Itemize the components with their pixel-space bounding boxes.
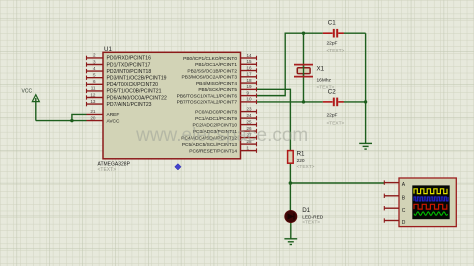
wire node to D1 [289, 183, 291, 211]
svg-text:22pF: 22pF [327, 113, 338, 119]
svg-text:<TEXT>: <TEXT> [297, 164, 315, 170]
pin 17 stub PB3 [182, 72, 257, 81]
pin 9 stub PB6 [177, 90, 257, 99]
svg-text:PB1/OC1A/PCINT1: PB1/OC1A/PCINT1 [195, 62, 237, 68]
power VCC [22, 89, 40, 102]
svg-text:6: 6 [93, 79, 96, 84]
svg-text:2: 2 [93, 53, 96, 58]
svg-text:<TEXT>: <TEXT> [327, 121, 345, 127]
svg-text:AREF: AREF [107, 112, 120, 118]
svg-text:5: 5 [93, 73, 96, 78]
svg-text:<TEXT>: <TEXT> [302, 220, 320, 226]
svg-text:16Mhz: 16Mhz [317, 78, 332, 84]
marker origin diamond [175, 164, 181, 170]
scope input C stub [384, 206, 406, 214]
pin 16 stub PB2 [187, 65, 256, 74]
svg-text:PC1/ADC1/PCINT9: PC1/ADC1/PCINT9 [195, 116, 237, 122]
svg-text:12: 12 [90, 92, 96, 97]
ground rail [359, 143, 372, 149]
scope input B stub [384, 194, 406, 202]
svg-text:PD1/TXD/PCINT17: PD1/TXD/PCINT17 [107, 62, 151, 68]
svg-text:X1: X1 [317, 65, 325, 72]
svg-text:PB7/TOSC2/XTAL2/PCINT7: PB7/TOSC2/XTAL2/PCINT7 [177, 100, 238, 106]
pin 23 stub PC0 [195, 106, 256, 115]
crystal X1 [294, 65, 313, 77]
svg-text:D1: D1 [302, 207, 310, 214]
pin 21 stub AREF [87, 109, 120, 118]
svg-text:11: 11 [91, 86, 96, 91]
pin 28 stub PC5 [182, 139, 257, 148]
pin 11 stub PD5 [87, 86, 162, 95]
pin 26 stub PC3 [193, 126, 257, 135]
svg-text:21: 21 [90, 109, 96, 114]
svg-text:22pF: 22pF [327, 41, 338, 47]
pin 12 stub PD6 [87, 92, 167, 101]
wire AVCC net VCC to pin 20 [36, 120, 87, 122]
svg-text:10: 10 [247, 97, 253, 102]
svg-text:19: 19 [247, 84, 253, 89]
svg-text:14: 14 [247, 53, 253, 58]
svg-text:PB6/TOSC1/XTAL1/PCINT6: PB6/TOSC1/XTAL1/PCINT6 [177, 93, 238, 99]
scope trace B blue [414, 197, 448, 201]
capacitor C2 [323, 98, 344, 107]
svg-text:24: 24 [247, 113, 253, 118]
pin 24 stub PC1 [195, 113, 256, 122]
svg-text:<TEXT>: <TEXT> [98, 167, 117, 173]
wire AREF branch [72, 114, 87, 120]
svg-text:1: 1 [247, 145, 250, 150]
wire R1 to node [289, 163, 291, 183]
svg-text:PC0/ADC0/PCINT8: PC0/ADC0/PCINT8 [195, 109, 237, 115]
resistor R1 [288, 151, 294, 164]
svg-text:PC6/RESET/PCINT14: PC6/RESET/PCINT14 [189, 148, 237, 154]
svg-text:C1: C1 [328, 19, 336, 26]
wire VCC lead down [35, 98, 37, 121]
svg-text:15: 15 [247, 59, 253, 64]
pin 2 stub PD0 [87, 53, 152, 62]
scope trace A yellow [414, 189, 447, 194]
wire pin19 SCK to R1 [257, 89, 291, 150]
wire crystal leads [303, 33, 305, 102]
svg-text:VCC: VCC [22, 89, 33, 95]
pin 13 stub PD7 [87, 99, 152, 108]
pin 5 stub PD3 [87, 73, 167, 82]
scope trace C red [414, 204, 447, 209]
svg-text:ce.com: ce.com [247, 125, 308, 146]
svg-text:U1: U1 [104, 46, 112, 53]
pin 4 stub PD2 [87, 66, 152, 75]
pin 14 stub PB0 [183, 53, 256, 62]
wire D1 to ground [290, 223, 292, 239]
svg-text:PD5/T1/OC0B/PCINT21: PD5/T1/OC0B/PCINT21 [107, 89, 162, 95]
svg-text:PB4/MISO/PCINT4: PB4/MISO/PCINT4 [196, 81, 237, 87]
pin 3 stub PD1 [87, 59, 151, 68]
led D1 [285, 210, 297, 222]
svg-text:17: 17 [247, 72, 253, 77]
svg-text:<TEXT>: <TEXT> [327, 48, 345, 54]
svg-text:18: 18 [247, 78, 253, 83]
svg-text:13: 13 [90, 99, 96, 104]
pin 6 stub PD4 [87, 79, 159, 88]
wire C1 right to rail [344, 32, 366, 34]
wire pin10 XTAL2 row to C2 [257, 101, 323, 103]
svg-text:PD2/INT0/PCINT18: PD2/INT0/PCINT18 [107, 69, 152, 75]
junction C2 rail [364, 100, 367, 103]
svg-text:D: D [402, 220, 406, 226]
pin 10 stub PB7 [177, 97, 257, 106]
svg-text:9: 9 [247, 90, 250, 95]
svg-text:C: C [402, 208, 406, 214]
wire C2 right to rail [344, 101, 366, 103]
scope input D stub [384, 218, 406, 226]
svg-text:23: 23 [247, 106, 253, 111]
wire node to scope A [290, 182, 384, 184]
svg-text:AVCC: AVCC [107, 118, 121, 124]
junction VCC/AREF [70, 119, 73, 122]
svg-text:PD4/T0/XCK/PCINT20: PD4/T0/XCK/PCINT20 [107, 82, 159, 88]
svg-text:C2: C2 [328, 88, 336, 95]
wire rail vertical [365, 33, 367, 143]
svg-text:R1: R1 [297, 151, 305, 158]
pin 27 stub PC4 [181, 132, 256, 141]
pin 19 stub PB5 [198, 84, 256, 93]
svg-text:PD3/INT1/OC2B/PCINT19: PD3/INT1/OC2B/PCINT19 [107, 76, 167, 82]
junction crystal C2 row [302, 100, 305, 103]
svg-text:www.elecspa: www.elecspa [135, 125, 247, 146]
ic U1 body [103, 52, 241, 159]
svg-text:3: 3 [93, 59, 96, 64]
svg-text:20: 20 [90, 115, 96, 120]
svg-text:PD7/AIN1/PCINT23: PD7/AIN1/PCINT23 [107, 102, 152, 108]
oscilloscope body [399, 178, 456, 227]
wire pin9 XTAL1 riser to C1 row [257, 33, 323, 95]
pin 25 stub PC2 [192, 119, 256, 128]
svg-text:220: 220 [297, 158, 305, 164]
junction crystal C1 [302, 32, 305, 35]
svg-text:LED-RED: LED-RED [302, 214, 324, 220]
svg-text:PB3/MOSI/OC2A/PCINT3: PB3/MOSI/OC2A/PCINT3 [182, 75, 238, 81]
ground led [284, 239, 297, 245]
scope trace D green [414, 212, 448, 215]
scope input A stub [384, 180, 406, 188]
svg-text:PB0/ICP1/CLKO/PCINT0: PB0/ICP1/CLKO/PCINT0 [183, 56, 237, 62]
pin 18 stub PB4 [196, 78, 257, 87]
capacitor C1 [323, 29, 344, 38]
svg-text:PD6/AIN0/OC0A/PCINT22: PD6/AIN0/OC0A/PCINT22 [107, 95, 167, 101]
scope screen [412, 185, 449, 219]
junction R1 D1 scope [289, 181, 293, 185]
svg-text:PB5/SCK/PCINT5: PB5/SCK/PCINT5 [198, 87, 237, 93]
svg-text:25: 25 [247, 119, 253, 124]
svg-text:4: 4 [93, 66, 96, 71]
pin 20 stub AVCC [87, 115, 121, 124]
svg-text:PD0/RXD/PCINT16: PD0/RXD/PCINT16 [107, 56, 152, 62]
svg-text:16: 16 [247, 65, 253, 70]
pin 15 stub PB1 [195, 59, 256, 68]
pin 1 stub PC6 [189, 145, 256, 154]
svg-text:PB2/SS/OC1B/PCINT2: PB2/SS/OC1B/PCINT2 [187, 68, 237, 74]
